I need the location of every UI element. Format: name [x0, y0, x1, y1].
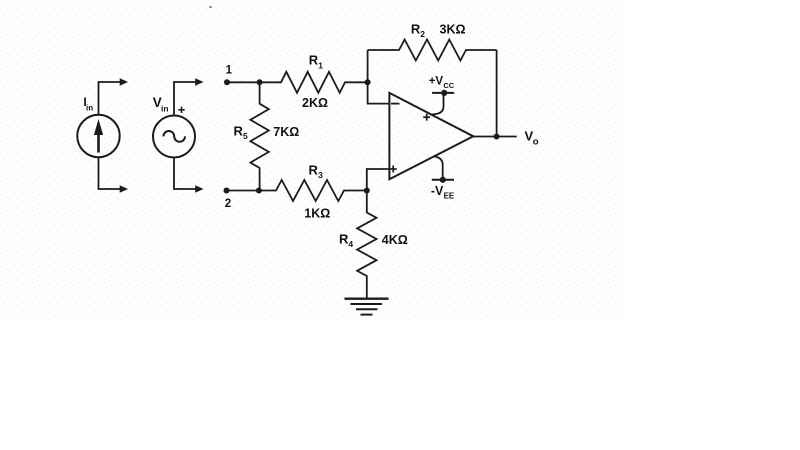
svg-text:5: 5: [243, 131, 248, 141]
ground: [345, 299, 389, 315]
wire inverting input: [368, 82, 390, 103]
svg-text:R: R: [234, 124, 244, 139]
svg-text:CC: CC: [443, 81, 454, 90]
svg-text:EE: EE: [444, 192, 455, 201]
Vcc supply bar: [432, 92, 454, 94]
junction node2/R5: [256, 188, 262, 194]
label R5: [234, 124, 249, 141]
node 2: [224, 188, 232, 211]
op-amp plus label: [390, 166, 397, 173]
scanned paper background: [0, 0, 627, 322]
svg-text:o: o: [533, 136, 539, 147]
wire output: [473, 136, 517, 138]
label Iin: [83, 95, 93, 112]
label +Vcc: [429, 76, 455, 91]
junction R3/R4: [364, 188, 370, 194]
label Vo: [525, 129, 539, 148]
wire Iin top: [99, 78, 129, 115]
Iin arrow: [94, 119, 103, 153]
Vee dot: [440, 177, 446, 183]
junction R1/feedback: [365, 79, 371, 85]
label R3: [309, 163, 324, 181]
wire Vin bottom: [174, 158, 204, 193]
op-amp supply plus: [423, 114, 430, 121]
svg-text:4KΩ: 4KΩ: [382, 233, 408, 247]
op-amp U1: [389, 93, 473, 179]
svg-text:2: 2: [420, 29, 425, 39]
svg-text:1: 1: [318, 60, 323, 70]
svg-text:in: in: [161, 104, 169, 114]
resistor R5: [250, 82, 268, 190]
wire node2 to R5 junction: [227, 190, 259, 192]
label R4: [339, 232, 353, 250]
wire feedback left: [367, 50, 369, 82]
label R2: [411, 21, 425, 38]
svg-text:-V: -V: [431, 184, 444, 198]
current source Iin: [77, 115, 119, 157]
resistor R4: [357, 191, 376, 299]
junction node1/R5: [257, 79, 263, 85]
wire Vcc to op-amp: [431, 94, 444, 115]
Vcc dot: [441, 90, 447, 96]
Vin polarity plus: [178, 107, 184, 113]
resistor R1: [260, 72, 368, 93]
op-amp minus label: [391, 103, 400, 105]
svg-text:3: 3: [318, 170, 323, 180]
svg-text:3KΩ: 3KΩ: [440, 22, 466, 36]
wire feedback right: [496, 50, 498, 137]
wire noninverting input: [367, 169, 390, 191]
svg-text:R: R: [309, 163, 319, 178]
wire Vee to op-amp: [435, 156, 443, 178]
svg-text:1KΩ: 1KΩ: [304, 207, 330, 221]
svg-text:4: 4: [348, 239, 353, 249]
scan speck: [209, 6, 212, 8]
resistor R2: [368, 40, 497, 61]
svg-text:R: R: [309, 53, 319, 68]
svg-text:2KΩ: 2KΩ: [302, 96, 328, 110]
voltage source Vin: [153, 116, 195, 158]
label R1: [309, 53, 324, 71]
Vee supply bar: [432, 179, 454, 181]
output node dot: [494, 134, 500, 140]
svg-text:1: 1: [226, 65, 233, 77]
wire Iin bottom: [99, 157, 129, 193]
svg-text:7KΩ: 7KΩ: [273, 125, 299, 139]
node 1: [224, 65, 233, 86]
resistor R3: [259, 180, 367, 201]
svg-text:in: in: [86, 103, 93, 112]
wire Vin top: [174, 78, 204, 115]
label Vin: [153, 95, 169, 114]
label -Vee: [431, 184, 455, 200]
svg-text:+V: +V: [429, 76, 444, 88]
Vin sine symbol: [163, 131, 185, 142]
svg-text:2: 2: [225, 198, 231, 210]
wire node1 to R5 junction: [227, 81, 260, 83]
